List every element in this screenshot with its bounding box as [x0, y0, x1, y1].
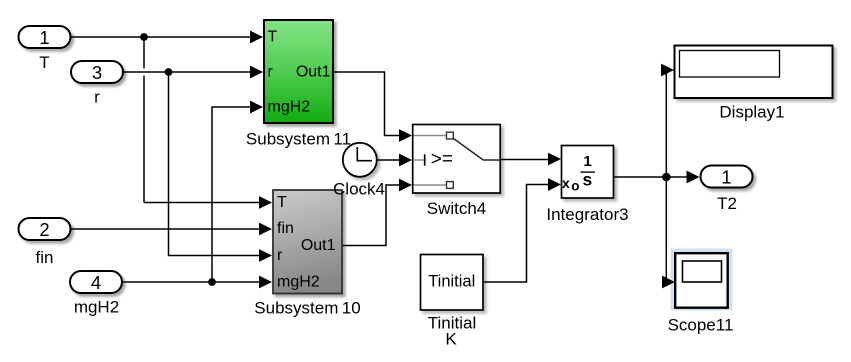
- svg-text:s: s: [583, 170, 593, 190]
- svg-text:1: 1: [721, 167, 731, 188]
- svg-text:mgH2: mgH2: [74, 298, 119, 317]
- svg-text:Subsystem 10: Subsystem 10: [254, 299, 360, 318]
- svg-text:Out1: Out1: [296, 64, 331, 81]
- svg-text:fin: fin: [36, 248, 54, 267]
- svg-text:x: x: [562, 175, 570, 191]
- svg-text:mgH2: mgH2: [277, 274, 320, 291]
- svg-text:T: T: [268, 29, 278, 46]
- svg-text:1: 1: [583, 153, 591, 170]
- svg-text:mgH2: mgH2: [268, 99, 311, 116]
- svg-text:4: 4: [91, 272, 101, 293]
- svg-text:fin: fin: [277, 220, 294, 237]
- svg-text:T: T: [277, 194, 287, 211]
- svg-text:2: 2: [39, 219, 49, 240]
- svg-text:>=: >=: [431, 149, 453, 170]
- svg-text:1: 1: [39, 27, 49, 48]
- svg-text:Integrator3: Integrator3: [546, 205, 628, 224]
- svg-text:Switch4: Switch4: [427, 199, 487, 218]
- svg-text:Display1: Display1: [719, 103, 784, 122]
- svg-text:Scope11: Scope11: [668, 316, 734, 335]
- svg-text:Subsystem 11: Subsystem 11: [246, 130, 351, 149]
- svg-text:3: 3: [92, 62, 102, 83]
- svg-text:r: r: [277, 247, 283, 264]
- svg-text:r: r: [94, 88, 100, 107]
- svg-text:T2: T2: [717, 194, 737, 213]
- svg-text:r: r: [268, 64, 274, 81]
- svg-text:Tinitial: Tinitial: [428, 273, 475, 291]
- svg-text:K: K: [445, 330, 457, 349]
- svg-text:Clock4: Clock4: [333, 180, 385, 199]
- svg-text:T: T: [39, 53, 49, 72]
- svg-text:Out1: Out1: [301, 237, 336, 254]
- svg-text:o: o: [571, 179, 579, 194]
